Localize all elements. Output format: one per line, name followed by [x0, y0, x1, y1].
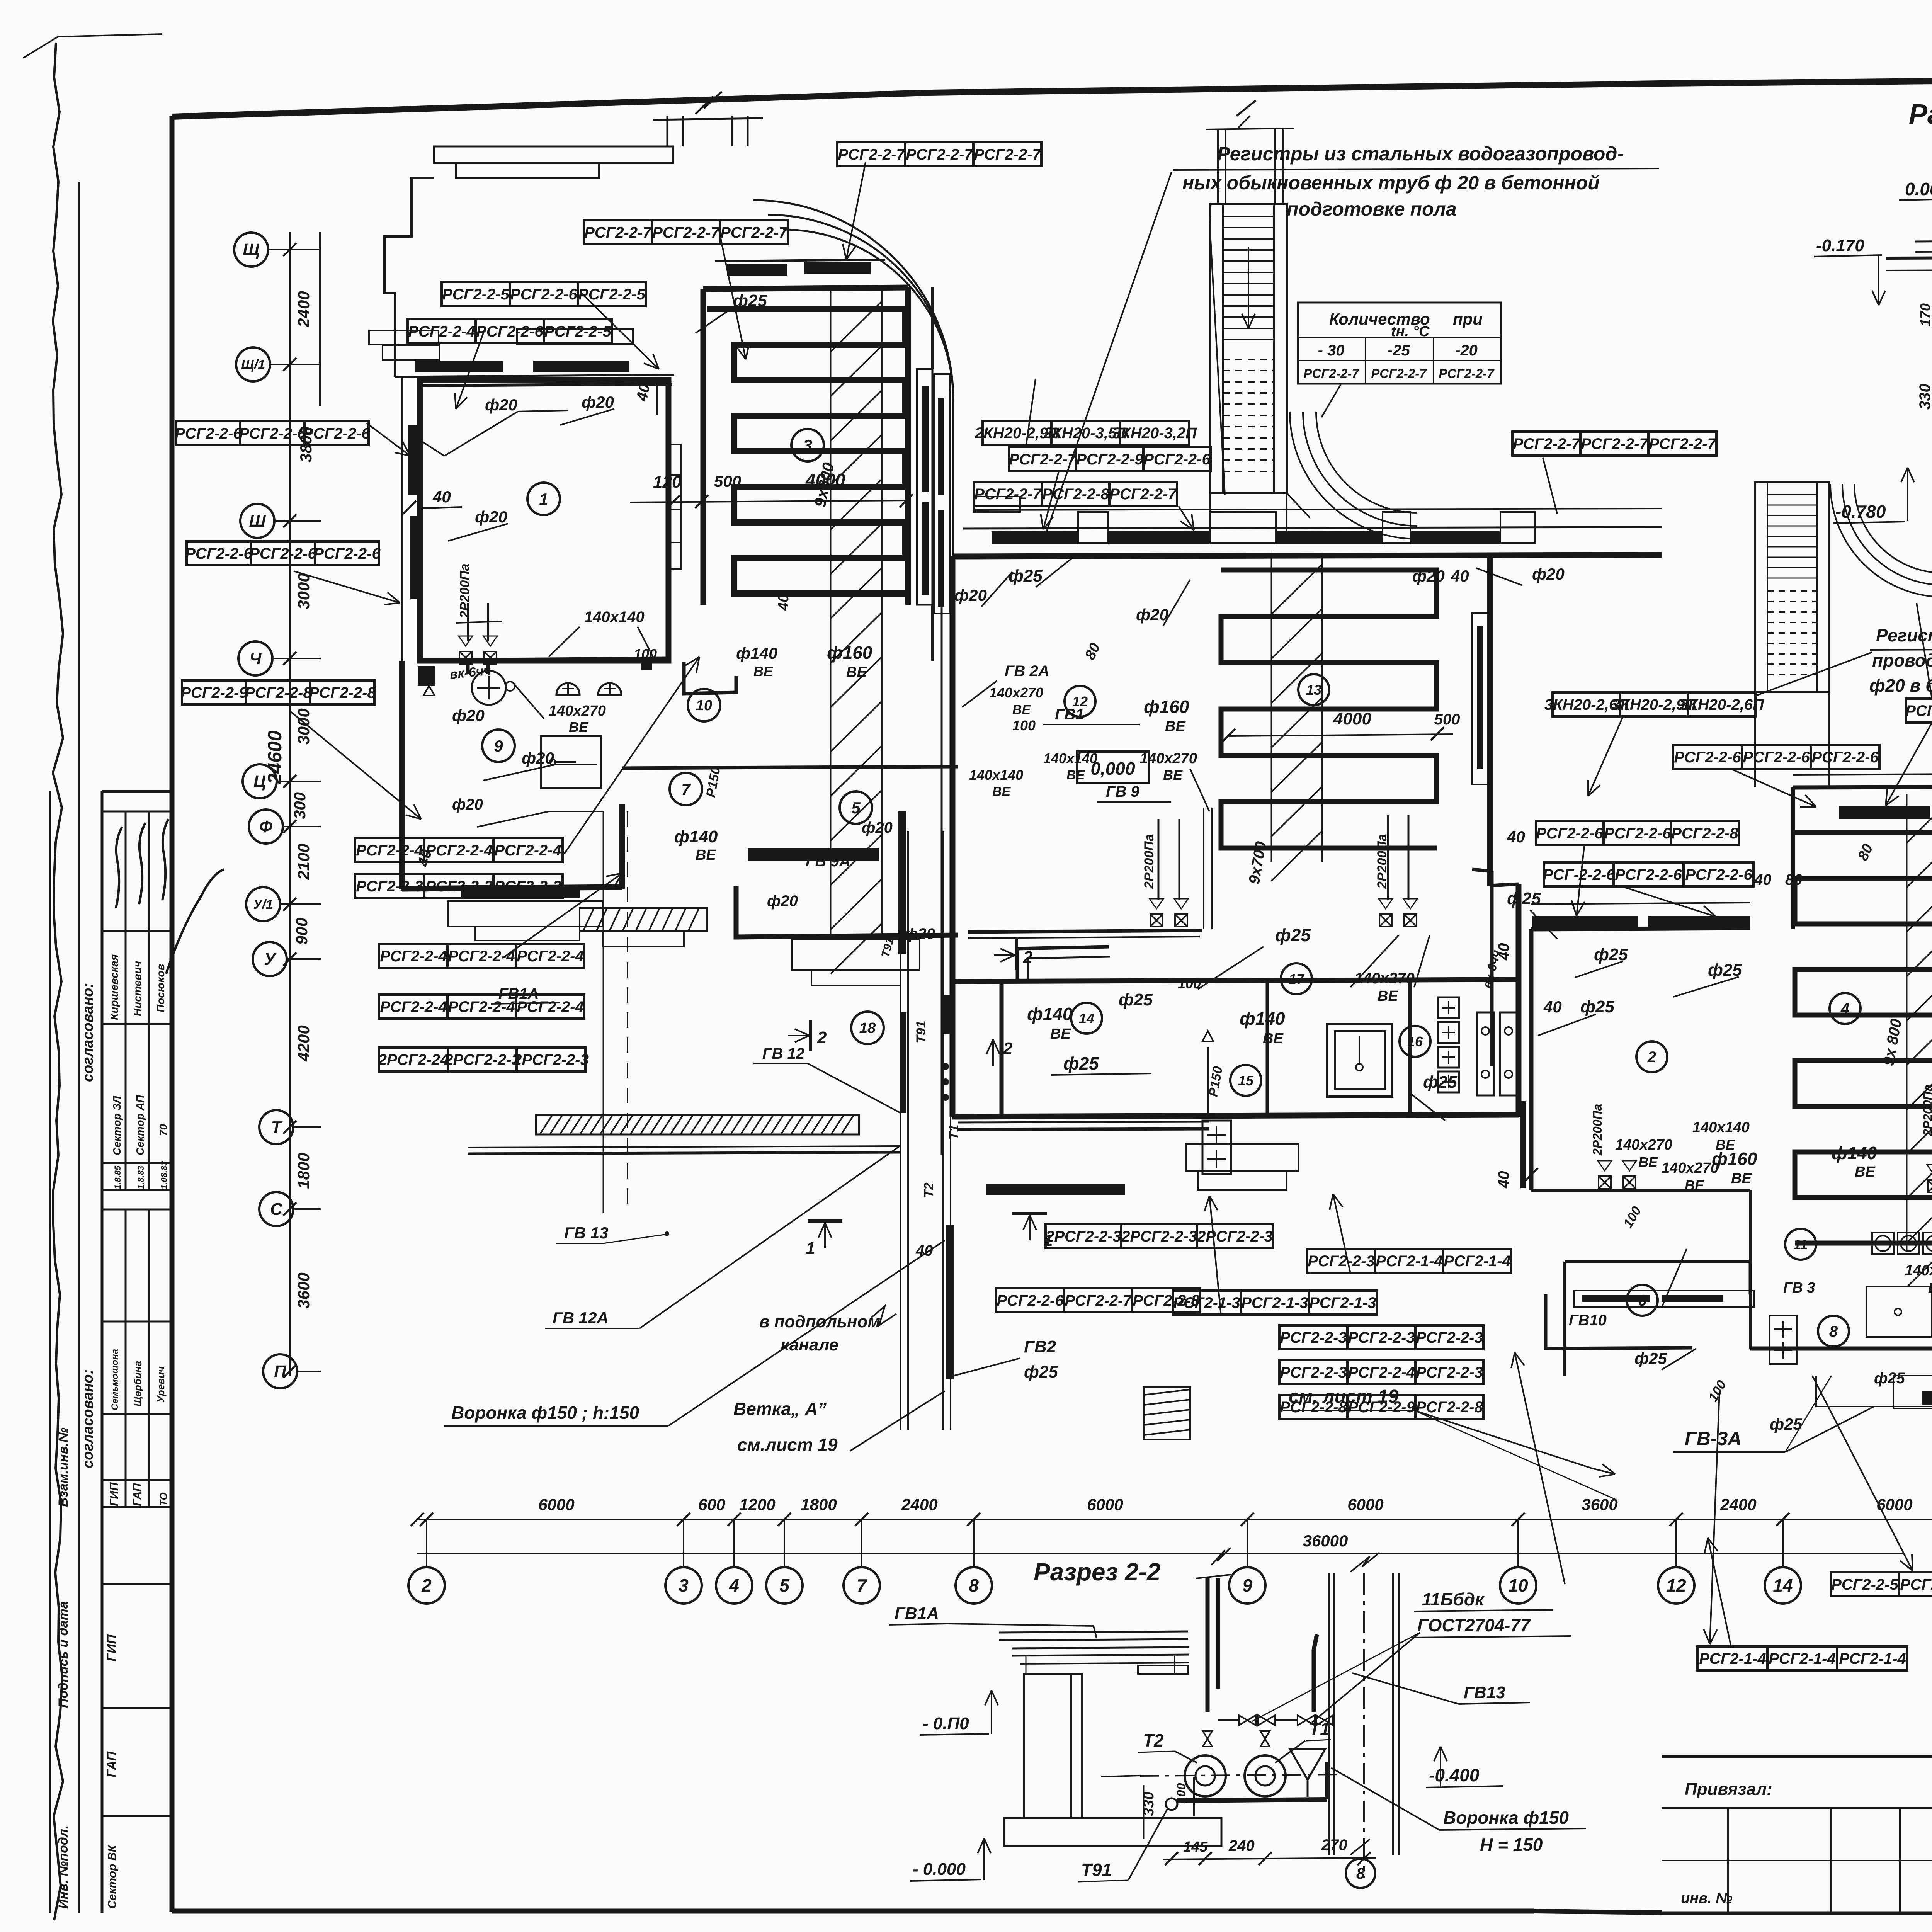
svg-text:РСГ2-2-8: РСГ2-2-8	[1416, 1399, 1483, 1416]
svg-text:2РСГ2-2-3: 2РСГ2-2-3	[444, 1051, 520, 1068]
svg-text:270: 270	[1321, 1837, 1347, 1854]
svg-text:ГВ 3: ГВ 3	[1783, 1280, 1815, 1296]
svg-text:24600: 24600	[264, 730, 286, 784]
svg-text:РСГ2-2-7: РСГ2-2-7	[974, 146, 1041, 163]
svg-text:140х270: 140х270	[1140, 750, 1197, 767]
svg-text:2400: 2400	[1720, 1495, 1756, 1514]
svg-text:2400: 2400	[294, 291, 313, 327]
svg-text:40: 40	[633, 382, 653, 403]
svg-text:РСГ2-2-6: РСГ2-2-6	[1811, 749, 1879, 766]
svg-text:РСГ2-2-6: РСГ2-2-6	[1685, 866, 1752, 883]
svg-text:РСГ2-2-7: РСГ2-2-7	[1303, 366, 1359, 381]
svg-text:ф25: ф25	[1119, 990, 1153, 1009]
svg-text:140х270: 140х270	[989, 685, 1043, 701]
svg-text:-0.400: -0.400	[1429, 1765, 1480, 1785]
svg-text:100: 100	[1012, 718, 1036, 733]
svg-text:ф20: ф20	[954, 586, 987, 604]
svg-text:1.08.83: 1.08.83	[159, 1161, 169, 1189]
svg-text:140х270: 140х270	[1615, 1137, 1672, 1153]
svg-text:2: 2	[1647, 1049, 1656, 1066]
svg-text:РСГ2-2-7: РСГ2-2-7	[1439, 366, 1495, 381]
svg-text:канале: канале	[781, 1335, 838, 1354]
svg-text:-0.170: -0.170	[1816, 236, 1864, 255]
svg-text:РСГ2-2-6: РСГ2-2-6	[1536, 825, 1603, 842]
svg-text:40: 40	[915, 1242, 933, 1259]
svg-text:РСГ2-2-5: РСГ2-2-5	[1831, 1576, 1898, 1593]
svg-text:ВЕ: ВЕ	[753, 663, 773, 679]
svg-text:РСГ2-2-5: РСГ2-2-5	[1900, 1576, 1932, 1593]
svg-text:ф140: ф140	[674, 827, 718, 846]
svg-text:2100: 2100	[294, 844, 313, 880]
svg-text:РСГ2-2-7: РСГ2-2-7	[1581, 435, 1648, 452]
svg-text:3КН20-2,6П: 3КН20-2,6П	[1680, 696, 1764, 713]
svg-text:РСГ2-2-7: РСГ2-2-7	[652, 224, 720, 241]
svg-text:ф20: ф20	[1412, 567, 1445, 585]
svg-text:ных обыкновенных труб ф: ных обыкновенных труб ф 20 в бетонной	[1182, 172, 1600, 194]
svg-text:2РСГ2-2-3: 2РСГ2-2-3	[1121, 1228, 1197, 1245]
svg-text:2: 2	[817, 1028, 827, 1047]
svg-text:РСГ2-1-3: РСГ2-1-3	[1309, 1294, 1376, 1311]
svg-text:ВЕ: ВЕ	[1165, 718, 1186, 735]
svg-text:Ветка„ А”: Ветка„ А”	[733, 1399, 827, 1419]
svg-text:ВЕ: ВЕ	[1638, 1154, 1658, 1170]
svg-text:РСГ-2-2-6: РСГ-2-2-6	[1543, 866, 1616, 883]
svg-text:РСГ2-2-6: РСГ2-2-6	[303, 425, 370, 442]
svg-text:РСГ2-2-9: РСГ2-2-9	[1348, 1399, 1415, 1416]
svg-text:600: 600	[698, 1495, 725, 1514]
svg-text:Сектор ВК: Сектор ВК	[106, 1844, 119, 1909]
svg-text:Взам.инв.№: Взам.инв.№	[56, 1427, 71, 1507]
svg-text:РСГ2-2-4: РСГ2-2-4	[380, 948, 447, 965]
svg-text:ВЕ: ВЕ	[1050, 1026, 1071, 1042]
svg-text:40: 40	[1754, 871, 1772, 888]
svg-text:3: 3	[679, 1575, 689, 1595]
svg-text:РСГ2-2-9: РСГ2-2-9	[180, 684, 248, 701]
svg-text:Инв. №подл.: Инв. №подл.	[56, 1825, 71, 1909]
svg-text:ф20: ф20	[582, 393, 614, 411]
svg-text:Т2: Т2	[1143, 1730, 1164, 1750]
svg-text:2РСГ2-2-3: 2РСГ2-2-3	[513, 1051, 589, 1068]
svg-text:ГВ 12: ГВ 12	[762, 1045, 804, 1062]
svg-text:120: 120	[653, 473, 682, 492]
svg-text:инв. №: инв. №	[1681, 1890, 1733, 1906]
svg-text:Разрез 2-2: Разрез 2-2	[1034, 1558, 1161, 1586]
svg-text:Сектор АП: Сектор АП	[134, 1095, 146, 1155]
svg-text:ф20 в бетонной подготовке: ф20 в бетонной подготовке	[1869, 675, 1932, 696]
svg-text:ГИП: ГИП	[108, 1482, 121, 1506]
svg-text:240: 240	[1228, 1837, 1255, 1854]
svg-text:13: 13	[1306, 682, 1321, 698]
svg-text:40: 40	[1495, 943, 1512, 961]
svg-text:ГВ 9: ГВ 9	[1106, 783, 1140, 800]
svg-text:РСГ2-2-8: РСГ2-2-8	[309, 684, 376, 701]
svg-text:Т1: Т1	[1309, 1719, 1330, 1739]
svg-text:ГВ 13: ГВ 13	[564, 1224, 609, 1242]
svg-text:6000: 6000	[538, 1495, 574, 1514]
svg-text:ГВ 12А: ГВ 12А	[553, 1309, 609, 1327]
svg-text:согласовано:: согласовано:	[80, 983, 96, 1082]
svg-text:РСГ2-1-4: РСГ2-1-4	[1444, 1253, 1511, 1270]
svg-text:Т1: Т1	[947, 1124, 961, 1140]
svg-text:Воронка ф150 ; h:150: Воронка ф150 ; h:150	[451, 1403, 639, 1423]
svg-text:РСГ2-2-8: РСГ2-2-8	[245, 684, 312, 701]
svg-text:ГВ1А: ГВ1А	[895, 1604, 939, 1623]
svg-text:У/1: У/1	[253, 897, 273, 912]
svg-text:16: 16	[1407, 1034, 1423, 1049]
svg-text:tн. °С: tн. °С	[1391, 323, 1430, 340]
svg-text:РСГ2-2-8: РСГ2-2-8	[1280, 1399, 1347, 1416]
svg-text:40: 40	[432, 488, 451, 506]
svg-text:ф160: ф160	[827, 643, 872, 663]
svg-text:РСГ2-2-3: РСГ2-2-3	[1308, 1253, 1375, 1270]
svg-text:15: 15	[1238, 1073, 1254, 1088]
svg-text:РСГ2-2-3: РСГ2-2-3	[356, 878, 423, 895]
svg-text:ф25: ф25	[1580, 997, 1614, 1016]
svg-text:РСГ2-2-4: РСГ2-2-4	[1348, 1364, 1415, 1381]
svg-text:ф20: ф20	[475, 508, 507, 526]
svg-text:Регистры из стальных: Регистры из стальных водогазопровод-	[1217, 143, 1624, 165]
svg-text:согласовано:: согласовано:	[80, 1369, 96, 1468]
svg-text:2: 2	[1003, 1039, 1013, 1058]
svg-text:ТО: ТО	[158, 1492, 169, 1506]
svg-text:4200: 4200	[294, 1025, 313, 1061]
svg-text:ф25: ф25	[1874, 1370, 1905, 1387]
svg-text:У: У	[264, 950, 277, 969]
svg-text:500: 500	[1434, 711, 1460, 728]
svg-text:ф20: ф20	[862, 819, 893, 836]
svg-text:см.лист 19: см.лист 19	[737, 1435, 838, 1455]
svg-text:3600: 3600	[294, 1272, 313, 1308]
svg-text:40: 40	[1507, 828, 1525, 846]
svg-text:11: 11	[1793, 1236, 1808, 1252]
svg-text:140х140: 140х140	[584, 609, 645, 626]
svg-text:ГВ 2А: ГВ 2А	[1005, 663, 1049, 680]
svg-text:Т2: Т2	[922, 1182, 936, 1198]
svg-text:140х140: 140х140	[969, 767, 1023, 783]
svg-text:РСГ2-1-3: РСГ2-1-3	[1173, 1294, 1240, 1311]
svg-text:ГВ-3А: ГВ-3А	[1685, 1428, 1742, 1449]
svg-text:- 30: - 30	[1318, 342, 1345, 359]
svg-text:Ф: Ф	[259, 817, 273, 836]
svg-text:РСГ2-2-3: РСГ2-2-3	[425, 878, 493, 895]
svg-text:9: 9	[494, 737, 503, 755]
svg-text:1.8.85: 1.8.85	[113, 1165, 122, 1189]
svg-text:170: 170	[1917, 303, 1932, 327]
svg-text:ГОСТ2704-77: ГОСТ2704-77	[1417, 1615, 1531, 1635]
svg-text:Привязал:: Привязал:	[1685, 1780, 1772, 1799]
svg-text:9: 9	[1242, 1575, 1252, 1595]
svg-text:ф25: ф25	[1594, 945, 1628, 964]
svg-text:С: С	[270, 1200, 283, 1219]
svg-text:ф140: ф140	[1240, 1009, 1285, 1029]
svg-text:РСГ2-2-6: РСГ2-2-6	[476, 323, 543, 340]
svg-text:330: 330	[1917, 384, 1932, 410]
svg-text:Щ/1: Щ/1	[241, 357, 265, 372]
svg-text:РСГ2-1-3: РСГ2-1-3	[1241, 1294, 1308, 1311]
svg-text:ГВ 9А: ГВ 9А	[806, 853, 850, 870]
svg-text:ф140: ф140	[1027, 1004, 1073, 1024]
svg-text:36000: 36000	[1303, 1532, 1348, 1550]
svg-text:ВЕ: ВЕ	[569, 719, 588, 735]
svg-text:Киршевская: Киршевская	[108, 954, 120, 1020]
svg-text:2Р200Па: 2Р200Па	[457, 563, 472, 619]
svg-text:РСГ2-1-4: РСГ2-1-4	[1769, 1650, 1836, 1667]
svg-text:РСГ2-2-8: РСГ2-2-8	[1671, 825, 1738, 842]
svg-text:ф25: ф25	[1770, 1415, 1803, 1433]
svg-text:Т: Т	[271, 1118, 283, 1137]
svg-text:1: 1	[806, 1239, 815, 1258]
svg-text:ф25: ф25	[1634, 1349, 1667, 1367]
svg-text:12: 12	[1666, 1575, 1686, 1595]
svg-text:проводных обыкновенных т: проводных обыкновенных труб	[1872, 650, 1932, 670]
svg-text:ВЕ: ВЕ	[846, 664, 867, 680]
svg-text:14: 14	[1773, 1575, 1793, 1595]
svg-text:РСГ2-2-7: РСГ2-2-7	[584, 224, 652, 241]
svg-text:подготовке пола: подготовке пола	[1287, 198, 1457, 220]
svg-text:РСГ2-2-7: РСГ2-2-7	[1109, 486, 1177, 503]
svg-text:РСГ2-2-3: РСГ2-2-3	[1348, 1329, 1415, 1346]
svg-text:РСГ2-2-6: РСГ2-2-6	[1615, 866, 1682, 883]
svg-text:14: 14	[1079, 1010, 1094, 1026]
svg-text:ф25: ф25	[1009, 566, 1043, 585]
svg-text:7: 7	[681, 780, 691, 798]
svg-text:ГВ1: ГВ1	[1055, 706, 1084, 723]
svg-text:-20: -20	[1455, 342, 1478, 359]
svg-text:ВЕ: ВЕ	[992, 784, 1011, 799]
svg-text:РСГ2-2-3: РСГ2-2-3	[1416, 1329, 1483, 1346]
svg-text:ф20: ф20	[767, 893, 798, 910]
svg-text:300: 300	[291, 792, 309, 819]
svg-text:РСГ2-2-7: РСГ2-2-7	[1065, 1292, 1132, 1309]
svg-text:1: 1	[539, 490, 548, 508]
svg-text:-25: -25	[1388, 342, 1410, 359]
svg-text:Воронка ф150: Воронка ф150	[1443, 1808, 1569, 1828]
svg-text:ВЕ: ВЕ	[1731, 1170, 1752, 1187]
svg-text:РСГ2-2-7: РСГ2-2-7	[838, 146, 905, 163]
svg-text:80: 80	[1785, 871, 1803, 888]
svg-text:40: 40	[776, 594, 792, 611]
svg-text:ГВ2: ГВ2	[1024, 1337, 1056, 1356]
svg-text:РСГ2-2-7: РСГ2-2-7	[1649, 435, 1716, 452]
svg-text:РСГ2-2-6: РСГ2-2-6	[249, 545, 316, 562]
svg-text:4: 4	[729, 1575, 739, 1595]
svg-text:6000: 6000	[1347, 1495, 1383, 1514]
svg-text:РСГ2-2-4: РСГ2-2-4	[517, 948, 584, 965]
svg-text:РСГ2-2-7: РСГ2-2-7	[1009, 451, 1077, 468]
svg-text:РСГ2-2-6: РСГ2-2-6	[175, 425, 242, 442]
svg-text:РСГ2-2-3: РСГ2-2-3	[494, 878, 561, 895]
svg-text:0.000: 0.000	[1905, 179, 1932, 199]
svg-text:2: 2	[1023, 948, 1033, 967]
svg-text:2400: 2400	[901, 1495, 937, 1514]
svg-text:Уревич: Уревич	[155, 1366, 167, 1403]
svg-text:ф25: ф25	[1275, 925, 1311, 945]
svg-text:8: 8	[1356, 1865, 1365, 1882]
svg-text:Ч: Ч	[249, 649, 262, 668]
svg-text:1800: 1800	[294, 1153, 313, 1189]
svg-text:ф160: ф160	[1712, 1149, 1757, 1169]
svg-text:РСГ2-2-3: РСГ2-2-3	[1416, 1364, 1483, 1381]
svg-text:РСГ2-1-4: РСГ2-1-4	[1699, 1650, 1766, 1667]
svg-text:РСГ2-2-6: РСГ2-2-6	[1743, 749, 1810, 766]
svg-text:ВЕ: ВЕ	[696, 847, 716, 863]
svg-text:3000: 3000	[294, 708, 313, 744]
svg-text:РСГ2-2-7: РСГ2-2-7	[974, 486, 1042, 503]
svg-text:140х270: 140х270	[549, 703, 606, 719]
svg-text:Разрез 1-1: Разрез 1-1	[1909, 99, 1932, 130]
svg-text:РСГ2-2-6: РСГ2-2-6	[1604, 825, 1671, 842]
svg-text:1800: 1800	[801, 1495, 837, 1514]
svg-text:ВЕ: ВЕ	[1012, 702, 1031, 717]
svg-text:РСГ2-2-4: РСГ2-2-4	[425, 842, 493, 859]
svg-text:в подпольном: в подпольном	[759, 1312, 880, 1331]
svg-text:Т91: Т91	[1081, 1860, 1112, 1880]
svg-text:-0.780: -0.780	[1835, 502, 1886, 522]
svg-text:4000: 4000	[1333, 709, 1371, 728]
svg-text:5: 5	[851, 799, 861, 817]
svg-text:Щ: Щ	[243, 240, 260, 259]
svg-text:РСГ2-2-3: РСГ2-2-3	[1280, 1329, 1347, 1346]
svg-text:140х140: 140х140	[1692, 1119, 1750, 1136]
svg-text:10: 10	[696, 697, 712, 714]
svg-text:Сектор ЗЛ: Сектор ЗЛ	[111, 1096, 123, 1155]
svg-text:РСГ2-2-7: РСГ2-2-7	[1905, 702, 1932, 719]
svg-text:40: 40	[1451, 567, 1469, 585]
svg-text:3: 3	[803, 436, 812, 454]
svg-text:ГВ13: ГВ13	[1464, 1683, 1505, 1702]
svg-text:1.8.83: 1.8.83	[136, 1166, 146, 1189]
svg-text:17: 17	[1289, 971, 1305, 987]
svg-text:100: 100	[1174, 1783, 1188, 1804]
svg-text:Семьмошона: Семьмошона	[110, 1349, 120, 1410]
svg-text:900: 900	[293, 918, 311, 945]
svg-text:ВЕ: ВЕ	[1263, 1031, 1284, 1047]
svg-text:Нистевич: Нистевич	[131, 961, 143, 1016]
svg-text:ГВ10: ГВ10	[1569, 1312, 1607, 1329]
svg-text:РСГ2-2-4: РСГ2-2-4	[517, 998, 584, 1015]
svg-text:РСГ2-2-7: РСГ2-2-7	[906, 146, 973, 163]
svg-text:4: 4	[1840, 1000, 1849, 1017]
svg-text:ф25: ф25	[1423, 1073, 1457, 1092]
svg-text:5: 5	[779, 1575, 790, 1595]
svg-text:РСГ2-2-7: РСГ2-2-7	[1513, 435, 1580, 452]
svg-text:2Р200Па: 2Р200Па	[1142, 834, 1156, 889]
svg-text:ВЕ: ВЕ	[1066, 768, 1085, 782]
svg-text:ВЕ: ВЕ	[1855, 1164, 1876, 1180]
svg-text:РСГ2-2-4: РСГ2-2-4	[356, 842, 423, 859]
svg-text:ф140: ф140	[736, 644, 777, 662]
svg-text:РСГ2-2-6: РСГ2-2-6	[185, 545, 252, 562]
svg-text:11Ббдк: 11Ббдк	[1422, 1589, 1485, 1609]
svg-text:7: 7	[857, 1575, 867, 1595]
svg-text:Посюков: Посюков	[155, 964, 167, 1012]
svg-text:ф20: ф20	[452, 706, 485, 724]
svg-text:ВЕ: ВЕ	[1685, 1177, 1704, 1193]
svg-text:Ш: Ш	[249, 512, 266, 531]
svg-text:145: 145	[1183, 1839, 1208, 1855]
svg-text:2Р200Па: 2Р200Па	[1590, 1104, 1604, 1156]
svg-text:8: 8	[1829, 1323, 1838, 1340]
svg-text:6000: 6000	[1087, 1495, 1123, 1514]
svg-text:РСГ2-2-6: РСГ2-2-6	[239, 425, 306, 442]
svg-text:РСГ2-2-4: РСГ2-2-4	[448, 998, 515, 1015]
svg-text:Подпись и дата: Подпись и дата	[56, 1601, 71, 1708]
svg-text:10: 10	[1508, 1575, 1528, 1595]
svg-text:ф20: ф20	[1532, 565, 1565, 583]
svg-text:Н = 150: Н = 150	[1480, 1835, 1543, 1855]
svg-text:РСГ2-1-4: РСГ2-1-4	[1376, 1253, 1443, 1270]
svg-text:РСГ2-2-6: РСГ2-2-6	[997, 1292, 1064, 1309]
svg-text:140х270: 140х270	[1905, 1262, 1932, 1279]
svg-text:ф20: ф20	[452, 796, 483, 813]
svg-text:ф20: ф20	[485, 396, 517, 414]
svg-text:2РСГ2-2-3: 2РСГ2-2-3	[1197, 1228, 1273, 1245]
svg-text:РСГ2-2-4: РСГ2-2-4	[494, 842, 561, 859]
svg-text:40: 40	[1495, 1171, 1512, 1189]
svg-text:8: 8	[969, 1575, 979, 1595]
svg-text:РСГ2-2-3: РСГ2-2-3	[1280, 1364, 1347, 1381]
svg-text:ф25: ф25	[1063, 1053, 1099, 1073]
svg-text:ф25: ф25	[1507, 889, 1541, 908]
svg-text:РСГ2-2-6: РСГ2-2-6	[313, 545, 381, 562]
svg-text:140х140: 140х140	[1043, 750, 1097, 766]
svg-text:40: 40	[1543, 998, 1562, 1016]
svg-text:РСГ2-2-6: РСГ2-2-6	[510, 286, 577, 303]
svg-text:2РСГ2-24: 2РСГ2-24	[378, 1051, 449, 1068]
svg-text:ф25: ф25	[1024, 1362, 1058, 1381]
svg-text:ф140: ф140	[1832, 1143, 1877, 1163]
svg-text:3КН20-3,2П: 3КН20-3,2П	[1112, 425, 1197, 442]
svg-text:ф160: ф160	[1144, 697, 1189, 717]
svg-text:330: 330	[1141, 1792, 1157, 1816]
svg-text:ВЕ: ВЕ	[1163, 767, 1183, 783]
svg-text:2Р200Па: 2Р200Па	[1921, 1085, 1932, 1136]
svg-text:при: при	[1453, 310, 1483, 328]
svg-text:РСГ2-1-4: РСГ2-1-4	[1839, 1650, 1906, 1667]
svg-text:2РСГ2-2-3: 2РСГ2-2-3	[1045, 1228, 1121, 1245]
svg-text:ГИП: ГИП	[104, 1634, 119, 1662]
svg-text:ф25: ф25	[733, 291, 767, 310]
svg-text:РСГ2-2-4: РСГ2-2-4	[380, 998, 447, 1015]
svg-text:2: 2	[421, 1575, 432, 1595]
svg-text:ф20: ф20	[1136, 605, 1168, 624]
svg-text:3000: 3000	[294, 573, 313, 609]
svg-text:РСГ2-2-5: РСГ2-2-5	[544, 323, 611, 340]
svg-text:Щербина: Щербина	[132, 1361, 143, 1406]
svg-text:ГАП: ГАП	[104, 1751, 119, 1777]
svg-text:РСГ2-2-6: РСГ2-2-6	[1674, 749, 1741, 766]
svg-text:РСГ2-2-7: РСГ2-2-7	[720, 224, 788, 241]
svg-text:70: 70	[157, 1124, 169, 1136]
svg-text:ВЕ: ВЕ	[1378, 988, 1398, 1004]
svg-text:ф20: ф20	[522, 749, 554, 767]
svg-text:РСГ2-2-7: РСГ2-2-7	[1371, 366, 1427, 381]
svg-text:100: 100	[1178, 976, 1201, 992]
svg-text:РСГ2-2-9: РСГ2-2-9	[1076, 451, 1143, 468]
svg-text:140х270: 140х270	[1662, 1160, 1719, 1176]
svg-text:Т91: Т91	[914, 1020, 929, 1043]
svg-text:ГАП: ГАП	[131, 1483, 144, 1506]
svg-text:РСГ2-2-5: РСГ2-2-5	[442, 286, 509, 303]
svg-text:РСГ2-2-6: РСГ2-2-6	[1143, 451, 1211, 468]
svg-text:- 0.П0: - 0.П0	[923, 1714, 969, 1733]
svg-text:1200: 1200	[739, 1495, 775, 1514]
svg-text:- 0.000: - 0.000	[913, 1860, 966, 1879]
svg-text:РСГ2-2-4: РСГ2-2-4	[408, 323, 475, 340]
svg-text:18: 18	[859, 1020, 876, 1036]
svg-text:П: П	[274, 1362, 287, 1381]
